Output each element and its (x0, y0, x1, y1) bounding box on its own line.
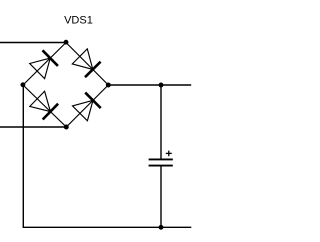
junction node left (20, 82, 25, 87)
junction node right (106, 83, 111, 88)
wire bottom rail (23, 226, 192, 228)
wire bridge arm left-top (23, 43, 66, 86)
junction node top (64, 40, 69, 45)
wire capacitor bottom lead (160, 166, 162, 227)
junction capacitor bottom (159, 225, 164, 230)
wire AC input 2 to bottom node (0, 126, 66, 128)
svg-text:VDS1: VDS1 (64, 14, 93, 26)
junction capacitor top (159, 83, 164, 88)
wire AC input 1 to top node (0, 42, 66, 44)
wire bridge arm left-bottom (23, 85, 66, 127)
wire bridge arm top-right (66, 43, 108, 86)
capacitor C1 plates (149, 159, 173, 165)
diode D3 (left to bottom) (30, 91, 58, 119)
wire DC minus from left node down (22, 85, 24, 227)
diode D4 (bottom to right) (73, 93, 101, 121)
junction node bottom (64, 125, 69, 130)
diode D2 (top to right) (72, 49, 100, 77)
capacitor polarity plus sign (166, 151, 172, 157)
wire bridge arm bottom-right (66, 85, 108, 127)
wire capacitor top lead (160, 85, 162, 159)
diode D1 (left to top) (30, 50, 58, 78)
wire DC plus from right node (108, 84, 191, 86)
